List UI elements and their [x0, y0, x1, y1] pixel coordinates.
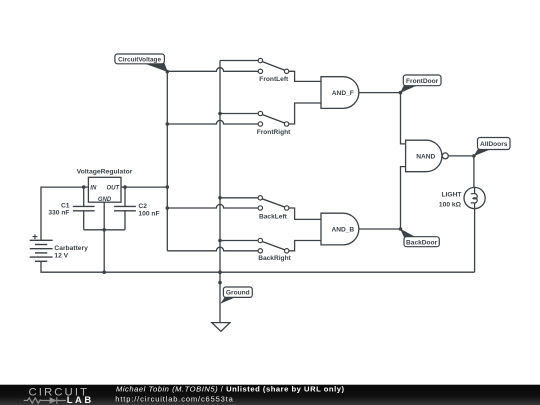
wire regulator GND lead down to ground rail	[103, 202, 105, 272]
svg-text:CircuitVoltage: CircuitVoltage	[118, 56, 161, 63]
junction AllDoors node	[472, 154, 476, 158]
svg-text:C2: C2	[138, 203, 147, 210]
and-gate AND_F	[321, 77, 359, 109]
junction OUT/bus A	[166, 185, 170, 189]
junction ground flag node	[218, 281, 222, 285]
svg-text:100 kΩ: 100 kΩ	[439, 201, 462, 208]
wire bus A to BackLeft bottom throw (hop over bus B)	[167, 204, 258, 208]
svg-text:Ground: Ground	[226, 290, 250, 297]
wire AllDoors node down to LIGHT	[473, 156, 475, 188]
footer bar	[0, 384, 540, 405]
switch BackRight	[258, 238, 289, 253]
junction bus A / BackLeft feed	[166, 206, 170, 210]
junction bus B / FrontRight top	[218, 112, 222, 116]
wire capacitor bottom rail	[84, 229, 125, 231]
wire BackRight common to AND_B bottom input	[289, 241, 321, 251]
junction C1/IN	[82, 185, 86, 189]
junction bus B / BackLeft top	[218, 196, 222, 200]
svg-text:BackRight: BackRight	[258, 255, 291, 262]
wire FrontLeft common to AND_F top input	[289, 71, 321, 81]
svg-text:FrontRight: FrontRight	[257, 129, 291, 136]
svg-text:LIGHT: LIGHT	[441, 191, 462, 198]
svg-text:BackLeft: BackLeft	[259, 213, 288, 220]
wire FrontDoor node down to NAND top input	[401, 93, 406, 144]
svg-text:LAB: LAB	[67, 394, 92, 405]
and-gate AND_B	[321, 213, 359, 245]
svg-text:FrontDoor: FrontDoor	[406, 78, 439, 85]
wire bus A vertical	[166, 71, 168, 251]
junction GND / ground rail	[102, 270, 106, 274]
wire BackLeft common to AND_B top input	[289, 208, 321, 219]
wire battery positive lead up to IN	[41, 187, 88, 240]
junction C2/OUT	[123, 185, 127, 189]
junction BackDoor node	[399, 227, 403, 231]
wire FrontRight common to AND_F bottom input	[289, 103, 321, 124]
wire node A to FrontLeft bottom throw (hop over bus B)	[167, 68, 258, 72]
wire OUT to bus A	[121, 186, 167, 188]
flag AllDoors	[474, 138, 511, 157]
junction FrontDoor node	[399, 91, 403, 95]
svg-text:BackDoor: BackDoor	[406, 239, 438, 246]
wire BackDoor node up to NAND bottom input	[401, 167, 406, 229]
wire ground rail	[41, 261, 475, 272]
capacitor C1	[73, 187, 95, 230]
svg-text:AND_B: AND_B	[331, 227, 354, 234]
wire bus B top corner to FrontLeft top throw	[220, 60, 258, 62]
junction bus B / ground rail	[218, 270, 222, 274]
svg-text:http://circuitlab.com/c6553ta: http://circuitlab.com/c6553ta	[115, 394, 233, 403]
wire AND_B output to BackDoor node	[359, 228, 401, 230]
svg-text:IN: IN	[90, 186, 97, 192]
svg-text:Michael Tobin (M.TOBIN5) / Unl: Michael Tobin (M.TOBIN5) / Unlisted (sha…	[116, 384, 344, 393]
junction bus B / BackRight top	[218, 239, 222, 243]
svg-text:GND: GND	[98, 197, 112, 203]
wire bus B to BackRight top throw	[220, 240, 258, 242]
svg-text:AND_F: AND_F	[332, 90, 354, 97]
wire bus B to BackLeft top throw	[220, 197, 258, 199]
voltage regulator U1 box	[88, 177, 121, 202]
switch FrontRight	[258, 111, 289, 126]
svg-text:12 V: 12 V	[54, 252, 68, 259]
junction bus A / FrontRight feed	[166, 122, 170, 126]
svg-text:330 nF: 330 nF	[48, 210, 69, 217]
nand-gate NAND	[406, 140, 442, 172]
svg-text:VoltageRegulator: VoltageRegulator	[77, 169, 133, 176]
svg-text:OUT: OUT	[107, 186, 121, 192]
battery Carbattery	[30, 234, 53, 261]
svg-text:C1: C1	[61, 202, 70, 209]
wire bus A corner to BackRight bottom throw (hop over bus B)	[167, 247, 258, 251]
switch BackLeft	[258, 196, 289, 211]
flag CircuitVoltage	[115, 54, 168, 72]
wire bus B vertical (ground bus)	[219, 61, 221, 323]
wire bus B to FrontRight top throw	[220, 113, 258, 115]
switch FrontLeft	[258, 58, 289, 73]
svg-text:Carbattery: Carbattery	[54, 245, 88, 252]
svg-text:100 nF: 100 nF	[138, 211, 159, 218]
flag BackDoor	[400, 229, 439, 247]
svg-text:NAND: NAND	[416, 153, 435, 160]
wire bus A to FrontRight bottom throw (hop over bus B)	[167, 120, 258, 124]
junction GND / capacitor rail	[102, 228, 106, 232]
junction CircuitVoltage node	[166, 70, 170, 74]
capacitor C2	[114, 187, 136, 230]
flag FrontDoor	[400, 75, 441, 93]
wire NAND output to AllDoors node	[448, 155, 474, 157]
wire LIGHT bottom down to ground rail	[474, 209, 476, 273]
flag Ground	[220, 287, 252, 304]
ground symbol	[212, 323, 230, 332]
lamp LIGHT	[464, 187, 485, 208]
wire AND_F output to FrontDoor node	[359, 92, 401, 94]
svg-text:FrontLeft: FrontLeft	[259, 76, 289, 83]
svg-text:AllDoors: AllDoors	[480, 141, 508, 148]
